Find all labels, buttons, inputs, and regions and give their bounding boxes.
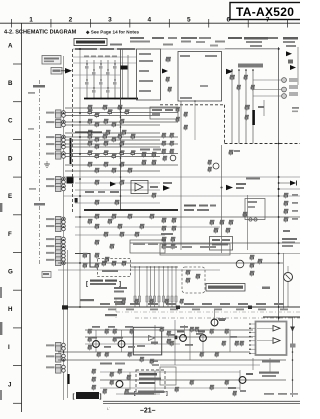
power feed wire x154.5 xyxy=(154,267,156,307)
comb components xyxy=(85,66,89,69)
label right mid top xyxy=(246,178,260,180)
resistor input row R26 xyxy=(88,150,93,152)
system control box xyxy=(210,237,233,251)
cluster x208-235 y220-235 xyxy=(210,220,215,222)
arrow right top 2 xyxy=(290,65,296,70)
resistor input row R18 xyxy=(118,134,123,136)
power feed wire x139.5 xyxy=(139,267,141,307)
left ruler ticks xyxy=(13,63,22,65)
resistor input row R25 xyxy=(95,144,100,146)
resistor input row R21 xyxy=(112,137,117,139)
wire right x298 xyxy=(297,47,299,85)
resistor psu Rp2 xyxy=(92,377,96,379)
GEQ box corner xyxy=(130,240,165,253)
wire right lower x292 xyxy=(292,317,294,397)
label AUX xyxy=(34,203,45,206)
cluster right of protection box xyxy=(167,331,171,333)
wire y394 xyxy=(116,393,160,395)
resistor amp Ra17 xyxy=(190,380,194,382)
wire vertical x181 mid xyxy=(180,101,182,250)
wire vertical x128 xyxy=(127,55,129,99)
top ruler line xyxy=(0,22,300,24)
resistor input row R20 xyxy=(95,137,100,139)
svg-text:]: ] xyxy=(119,282,121,288)
speaker jack pair y367 xyxy=(46,366,55,368)
STK power amp box xyxy=(256,322,287,356)
transistor y264 xyxy=(236,260,244,268)
margin specks left xyxy=(28,92,35,94)
wire y330 xyxy=(85,329,253,331)
resistor input row R30 xyxy=(95,153,100,155)
components x181 column xyxy=(176,107,180,109)
label top right TONE xyxy=(228,37,242,39)
wire y190 xyxy=(75,189,160,191)
resistor input row R2 xyxy=(103,105,108,107)
right column components y255-300 xyxy=(250,255,255,257)
resistor psu Rp3 xyxy=(92,385,96,387)
resistor psu Rp4 xyxy=(103,389,107,391)
label row small text under input board xyxy=(75,48,97,50)
resistor mid row Rm1 xyxy=(95,214,100,216)
resistor amp Ra11 xyxy=(235,341,239,343)
resistor mid row Rm12 xyxy=(135,232,140,234)
resistor amp Ra19 xyxy=(225,380,229,382)
resistor input row R3 xyxy=(118,105,123,107)
jack pair y153.5 xyxy=(46,153,55,155)
label row protector xyxy=(100,363,112,365)
jack pair y112.5 xyxy=(46,112,55,114)
jack pair y239 xyxy=(46,238,55,240)
resistor input row R24 xyxy=(120,141,125,143)
jack pair y246 xyxy=(46,245,55,247)
resistor mid row Rm7 xyxy=(140,224,145,226)
pot circles right xyxy=(282,78,287,83)
label right text block xyxy=(282,238,297,240)
junction blob y307 xyxy=(62,305,68,309)
transistor Q bottom 5 xyxy=(211,319,218,326)
svg-text:6: 6 xyxy=(226,17,230,24)
diode column right xyxy=(284,193,289,195)
wire y360 xyxy=(58,359,286,361)
label top far right xyxy=(283,37,298,40)
STK pin comb xyxy=(249,323,256,325)
wire y183 xyxy=(75,182,160,184)
resistor amp Ra18 xyxy=(210,385,214,387)
wire y352 xyxy=(58,351,250,353)
transistor Q bottom 3 xyxy=(180,335,187,342)
wire x247 y195-250 xyxy=(247,195,249,250)
wire y344 xyxy=(85,343,180,345)
cluster right x245-262 xyxy=(245,105,250,107)
EQ opamp box xyxy=(131,181,148,194)
svg-text:7: 7 xyxy=(266,17,270,24)
resistor mid row Rm8 xyxy=(150,214,155,216)
comb top wire y267 xyxy=(130,266,178,268)
junction dots x292 lower xyxy=(292,329,294,331)
power feed wire x159 xyxy=(158,267,160,307)
resistor input row R1 xyxy=(88,105,93,107)
svg-text:4: 4 xyxy=(148,17,152,24)
power feed wire x147 xyxy=(146,267,148,307)
wire y49 right segment xyxy=(225,48,280,50)
label MAIN IN xyxy=(105,314,117,316)
resistor amp Ra23 xyxy=(113,337,117,339)
resistor amp Ra25 xyxy=(190,327,194,329)
headphone dashed box xyxy=(98,259,131,277)
svg-text:–21–: –21– xyxy=(140,408,156,415)
black label box bottom left xyxy=(76,392,99,399)
svg-text:H: H xyxy=(8,306,13,313)
resistor mid row Rm6 xyxy=(104,232,109,234)
resistor input row R10 xyxy=(120,119,125,121)
resistor amp Ra6 xyxy=(140,357,144,359)
power feed wire x168 xyxy=(167,267,169,307)
resistor input row R37 xyxy=(128,168,133,170)
label volume box xyxy=(238,64,263,68)
dash-dot vertical x116 xyxy=(115,299,117,318)
wire y189 right xyxy=(279,188,300,190)
components eq row xyxy=(95,180,100,182)
resistor input row R27 xyxy=(104,150,109,152)
transistor Q mid xyxy=(213,163,219,169)
svg-text:2: 2 xyxy=(69,17,73,24)
resistor mid row Rm13 xyxy=(95,240,100,242)
resistor mid row Rm11 xyxy=(120,232,125,234)
resistor input row R32 xyxy=(88,162,93,164)
resistor input row R28 xyxy=(120,150,125,152)
arrow into EQ xyxy=(110,182,116,187)
resistor input row R22 xyxy=(88,141,93,143)
resistor mid row Rm14 xyxy=(110,244,115,246)
wire vertical bus x63 xyxy=(63,56,65,400)
jack pair y137 xyxy=(46,136,55,138)
jack pair y144 xyxy=(46,143,55,145)
jack pair y259.5 xyxy=(46,259,55,261)
svg-text:]: ] xyxy=(100,394,102,400)
wire stub x264 xyxy=(263,100,265,116)
resistor amp Ra9 xyxy=(195,327,199,329)
resistor input row R36 xyxy=(112,168,117,170)
resistor input row R11 xyxy=(95,122,100,124)
svg-text:F: F xyxy=(8,231,12,238)
speaker jack pair y345 xyxy=(46,344,55,346)
arrow into IC block xyxy=(162,69,168,74)
thick junction blob left xyxy=(67,177,74,184)
label FUNCTION switch xyxy=(130,37,144,39)
STK inner wires xyxy=(257,327,273,329)
wire y253 xyxy=(160,253,300,255)
IC box mid xyxy=(150,107,178,119)
tiny text right edge xyxy=(292,107,299,109)
wire y372 xyxy=(100,371,240,373)
dash-dot y312 xyxy=(116,311,300,313)
label INPUT BOARD xyxy=(74,39,107,46)
resistor amp Ra27 xyxy=(240,341,244,343)
resistor input row R17 xyxy=(103,134,108,136)
jack pair y186 xyxy=(46,185,55,187)
bottom right cluster xyxy=(228,387,236,389)
cluster x160-178 y237-250 xyxy=(162,237,167,239)
resistor input row R15 xyxy=(122,130,127,132)
transistor Q bottom 7 xyxy=(116,381,123,388)
amp labels scatter xyxy=(92,326,100,328)
resistor amp Ra29 xyxy=(200,352,204,354)
jack PHONO box xyxy=(42,56,61,65)
resistor input row R4 xyxy=(88,109,93,111)
left ruler line xyxy=(21,23,23,412)
wire vertical x221 lower xyxy=(221,145,223,253)
dark wire segment y132 xyxy=(75,131,102,133)
input board dashed border xyxy=(72,49,74,212)
power dashed box xyxy=(136,370,165,392)
label STK under box xyxy=(262,360,280,363)
dashed box top edge y104.8 xyxy=(160,104,225,106)
dash-dot y318 xyxy=(135,317,300,319)
svg-text:G: G xyxy=(8,269,13,276)
label top middle xyxy=(181,37,197,39)
junction dots bus x278 xyxy=(278,48,280,50)
resistor amp Ra3 xyxy=(88,337,92,339)
comb horizontal wires xyxy=(73,56,136,58)
wire y203 xyxy=(75,202,160,204)
transistor Q bottom 2 xyxy=(118,341,125,348)
resistor mid row Rm2 xyxy=(112,214,117,216)
bottom center text overall xyxy=(124,393,154,395)
resistor input row R8 xyxy=(88,119,93,121)
box bottom small xyxy=(160,367,176,385)
jack pair y219 xyxy=(46,218,55,220)
sub box right xyxy=(245,199,265,220)
labels along y307 xyxy=(100,303,110,305)
resistor mid row Rm10 xyxy=(108,219,113,221)
power transistor big xyxy=(284,273,293,282)
resistor mid row Rm4 xyxy=(95,224,100,226)
input select comb wires xyxy=(86,60,88,99)
wire y337 xyxy=(85,336,253,338)
wire y270 xyxy=(58,269,220,271)
rounded dashed box xyxy=(182,267,205,293)
resistor amp Ra24 xyxy=(128,352,132,354)
resistor amp Ra1 xyxy=(88,329,92,331)
text rows y205-212 xyxy=(184,205,196,207)
board line y307 xyxy=(64,306,301,308)
arrow out of IC block xyxy=(226,69,233,75)
components x229 y151 xyxy=(229,150,234,152)
power feed wire x172 xyxy=(171,267,173,307)
tone row components xyxy=(230,75,235,77)
resistor input row R23 xyxy=(104,141,109,143)
thick bar right xyxy=(252,110,255,125)
wire y235 xyxy=(75,234,165,236)
label VR xyxy=(262,287,270,290)
top ruler ticks xyxy=(11,19,13,28)
svg-text:B: B xyxy=(8,80,13,87)
arrow right mid xyxy=(279,182,290,184)
wire y227 xyxy=(75,226,220,228)
selector box xyxy=(137,49,161,100)
power feed wire x176 xyxy=(175,267,177,307)
resistor psu Rp5 xyxy=(118,369,122,371)
pot boxes right xyxy=(289,78,298,82)
resistor psu Rp1 xyxy=(92,369,96,371)
components left of IC block xyxy=(166,57,171,59)
resistor input row R16 xyxy=(88,134,93,136)
svg-text:5: 5 xyxy=(187,17,191,24)
resistor input row R5 xyxy=(108,109,113,111)
resistor input row R7 xyxy=(95,112,100,114)
dark wire y317 right xyxy=(263,316,300,318)
IC block box xyxy=(178,52,222,102)
board boundary dash-dot left xyxy=(39,80,41,265)
text row y190 xyxy=(85,191,94,193)
jack pair y252.5 xyxy=(46,252,55,254)
resistor input row R29 xyxy=(131,150,136,152)
tone pot cluster mid xyxy=(142,152,147,154)
wire top bus y49 xyxy=(73,48,280,50)
transistor Q bottom 1 xyxy=(93,341,100,348)
resistor amp Ra7 xyxy=(160,327,164,329)
bottom border double line xyxy=(103,400,300,402)
arrow mid right1 xyxy=(163,185,170,191)
svg-text:[: [ xyxy=(86,282,88,288)
wire vertical x122 upper xyxy=(122,49,124,99)
resistor input row R35 xyxy=(95,168,100,170)
jack AUX box xyxy=(51,68,62,75)
wire rows mid-left xyxy=(65,107,178,109)
box y245 xyxy=(160,244,230,255)
jack pair y122 xyxy=(46,121,55,123)
resistor mid row Rm3 xyxy=(128,214,133,216)
svg-text:4-2. SCHEMATIC DIAGRAM: 4-2. SCHEMATIC DIAGRAM xyxy=(4,30,77,36)
power feed wire x163.5 xyxy=(163,267,165,307)
svg-text:3: 3 xyxy=(108,17,112,24)
resistor input row R33 xyxy=(104,162,109,164)
cluster x160-181 y218-233 xyxy=(162,218,167,220)
wire y217 xyxy=(75,216,300,218)
text rows y287-302 xyxy=(114,287,127,289)
svg-text:[: [ xyxy=(73,394,75,400)
resistor input row R13 xyxy=(88,130,93,132)
wire bus y196 xyxy=(64,195,301,197)
arrow right top xyxy=(286,51,292,56)
svg-text:E: E xyxy=(8,193,12,200)
resistor amp Ra16 xyxy=(175,387,179,389)
wire y380 xyxy=(100,379,286,381)
amp verticals xyxy=(95,330,97,352)
speaker jack pair y356 xyxy=(46,355,55,357)
resistor input row R9 xyxy=(104,119,109,121)
wire y365 xyxy=(160,364,260,366)
svg-text:Lʻ: Lʻ xyxy=(107,406,110,411)
bottom right dashes xyxy=(264,393,274,395)
STK right marks xyxy=(290,327,295,332)
resistor input row R34 xyxy=(120,162,125,164)
protection IC box xyxy=(133,327,161,355)
dashed line y143.5 right xyxy=(225,143,301,145)
resistor amp Ra2 xyxy=(105,329,109,331)
components center y255-270 xyxy=(83,253,88,255)
jack pair y179 xyxy=(46,178,55,180)
resistor amp Ra13 xyxy=(110,372,114,374)
ground bus thick xyxy=(84,98,138,100)
thick bus y210 xyxy=(84,209,178,211)
label power transformer box xyxy=(206,284,245,292)
ground symbol left xyxy=(46,161,48,164)
tone comb wires xyxy=(231,70,233,144)
resistor psu Rp6 xyxy=(127,375,131,377)
small parts y300-305 xyxy=(122,299,126,301)
pot wires right xyxy=(253,79,281,81)
wire y388 xyxy=(100,387,240,389)
label top middle extra xyxy=(168,37,177,39)
resistor amp Ra12 xyxy=(150,359,154,361)
svg-text:I: I xyxy=(8,344,10,351)
resistor amp Ra21 xyxy=(97,352,101,354)
resistor mid row Rm9 xyxy=(88,219,93,221)
resistor amp Ra4 xyxy=(105,352,109,354)
resistor mid row Rm5 xyxy=(118,224,123,226)
wire vertical bus x67 lower xyxy=(67,250,69,398)
label PRE OUT xyxy=(80,299,94,301)
thick bus segment bottom x68 xyxy=(67,374,69,384)
wire y243 xyxy=(130,242,300,244)
resistor input row R14 xyxy=(106,130,111,132)
wire vertical x195 stub xyxy=(194,101,196,140)
left edge scan marks xyxy=(0,203,2,212)
jack pair y226 xyxy=(46,225,55,227)
wire bus y177 xyxy=(64,176,301,178)
label L-CH xyxy=(33,85,45,88)
resistor amp Ra30 xyxy=(215,352,219,354)
svg-text:C: C xyxy=(8,118,13,125)
svg-text:A: A xyxy=(8,42,13,49)
cluster x160-180 y133-160 xyxy=(162,133,166,135)
thick blob selector xyxy=(121,66,128,70)
resistor amp Ra10 xyxy=(225,329,229,331)
component blob right top xyxy=(288,60,293,64)
stepped wire to phones xyxy=(75,254,98,268)
label LIVE SPEAKER xyxy=(259,372,279,374)
resistor amp Ra14 xyxy=(110,380,114,382)
resistor amp Ra15 xyxy=(125,389,129,391)
junction dots x80 xyxy=(79,48,81,50)
arrow input feed xyxy=(65,68,72,74)
comb labels xyxy=(84,56,89,58)
switch contact dots comb xyxy=(86,63,87,64)
dark mark left y200 xyxy=(75,198,78,203)
svg-text:◆ See Page 14 for Notes: ◆ See Page 14 for Notes xyxy=(85,30,140,35)
ground terminal box xyxy=(42,272,51,278)
svg-text:D: D xyxy=(8,155,13,162)
junction dots bus x63 xyxy=(63,112,65,114)
wire vertical x120 xyxy=(120,49,122,210)
transistor in cluster xyxy=(170,155,176,161)
wire y263 xyxy=(58,262,283,264)
junction dots x120 xyxy=(120,107,122,109)
resistor amp Ra26 xyxy=(210,329,214,331)
wire right bus x278 xyxy=(278,47,280,321)
svg-text:J: J xyxy=(8,382,12,389)
power feed wire x135 xyxy=(134,267,136,307)
resistor input row R19 xyxy=(131,134,136,136)
dashed box right edge x224.5 xyxy=(224,105,226,144)
arrow mid right2 xyxy=(226,185,233,191)
resistor amp Ra28 xyxy=(222,341,226,343)
resistor input row R6 xyxy=(125,109,130,111)
resistor amp Ra22 xyxy=(113,329,117,331)
thick bus segment x70 xyxy=(70,138,72,164)
transistor Q bottom 4 xyxy=(200,335,207,342)
